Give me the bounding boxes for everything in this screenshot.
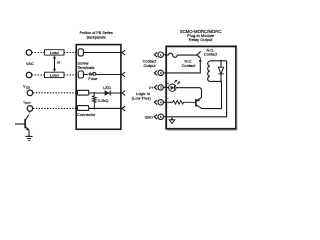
svg-text:3.3kΩ: 3.3kΩ [98,98,109,103]
svg-text:5: 5 [160,115,162,119]
svg-text:4: 4 [160,101,162,105]
svg-text:(Low True): (Low True) [132,95,152,100]
svg-text:DD: DD [26,86,30,90]
svg-text:Relay Output: Relay Output [189,37,213,42]
svg-text:Terminals: Terminals [77,65,94,70]
svg-text:Contact: Contact [204,53,218,57]
svg-text:2: 2 [160,71,162,75]
svg-text:GND: GND [145,116,154,120]
svg-text:Contact: Contact [182,63,197,68]
svg-text:3: 3 [160,86,162,90]
svg-text:+: + [167,82,169,86]
svg-text:Connector: Connector [77,112,96,117]
svg-text:Load: Load [50,50,59,55]
svg-text:OUT: OUT [25,101,31,105]
svg-text:V+: V+ [148,85,154,90]
svg-text:1: 1 [160,53,162,57]
svg-text:Output: Output [143,63,156,68]
svg-text:VAC: VAC [26,61,34,66]
svg-text:Backpanels: Backpanels [87,35,106,39]
svg-text:LED: LED [103,85,111,90]
svg-text:−: − [167,97,169,101]
svg-text:Fuse: Fuse [88,76,98,81]
svg-text:Load: Load [50,72,59,77]
